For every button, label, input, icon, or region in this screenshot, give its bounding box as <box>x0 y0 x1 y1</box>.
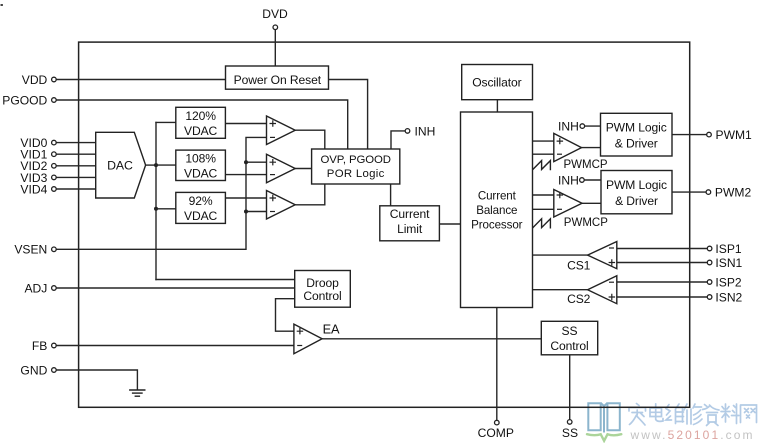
pin VID0 <box>20 136 56 150</box>
svg-text:COMP: COMP <box>478 426 514 440</box>
wire EA output to SS Control <box>322 338 541 340</box>
wire 92% VDAC to comp3 plus <box>225 197 266 199</box>
svg-text:Droop: Droop <box>306 276 339 290</box>
pin ISN2 <box>707 290 742 304</box>
wire ISN2 <box>617 296 708 298</box>
wire PWM2 output <box>672 191 706 193</box>
block SS Control <box>541 321 597 355</box>
wire ISP1 <box>617 248 708 250</box>
watermark book icon <box>588 403 620 433</box>
svg-text:OVP, PGOOD: OVP, PGOOD <box>321 154 391 166</box>
comparator 120% OVP <box>267 116 296 145</box>
wire ISP2 <box>617 281 708 283</box>
error amplifier EA <box>294 322 340 354</box>
sawtooth PWMCP 1 <box>533 161 551 170</box>
pin FB <box>32 339 56 353</box>
svg-text:PWM Logic: PWM Logic <box>606 178 667 192</box>
svg-text:CS2: CS2 <box>567 292 591 306</box>
block Power On Reset <box>226 66 329 89</box>
node INH2 <box>558 173 584 187</box>
sawtooth PWMCP 2 <box>533 219 551 228</box>
svg-text:VID4: VID4 <box>20 182 47 196</box>
wire comp1 out to OVP <box>295 130 325 149</box>
junction bus 92% <box>154 207 158 211</box>
stray dot top-left <box>1 4 3 6</box>
svg-text:ISN1: ISN1 <box>715 256 742 270</box>
svg-text:DAC: DAC <box>107 158 133 172</box>
svg-text:& Driver: & Driver <box>615 194 658 208</box>
wire bus to 120% VDAC <box>156 121 176 123</box>
WATERMARK <box>587 403 757 442</box>
ground symbol <box>130 390 145 396</box>
pin PWM2 <box>706 186 751 200</box>
wire VID1 <box>56 153 95 155</box>
DAC converter <box>96 132 146 198</box>
current sense amplifier CS1 <box>567 242 617 273</box>
wire VDD to Power On Reset <box>56 79 225 81</box>
svg-text:Oscillator: Oscillator <box>472 75 521 89</box>
svg-text:Current: Current <box>478 190 517 203</box>
block Current Balance Processor <box>461 112 533 308</box>
svg-text:VDAC: VDAC <box>184 167 218 181</box>
block 92% VDAC <box>176 192 226 223</box>
wire CS2 out to CBP <box>533 289 588 291</box>
svg-text:DVD: DVD <box>262 7 288 21</box>
wire comp3 out to OVP <box>295 184 325 205</box>
pin VID3 <box>20 171 56 185</box>
svg-text:INH: INH <box>558 120 579 134</box>
wire comp5 out to PWM logic 2 <box>582 202 601 204</box>
watermark chinese glyphs <box>629 404 757 426</box>
wire DVD stub <box>274 30 276 66</box>
wire VID3 <box>56 176 95 178</box>
wire bus to 92% VDAC <box>156 208 176 210</box>
pin ISN1 <box>707 256 742 270</box>
wire PWM1 output <box>672 134 707 136</box>
junction VSEN comp2 <box>244 160 248 164</box>
pin VID1 <box>20 148 56 162</box>
PWM comparator 2 <box>554 190 582 218</box>
svg-text:108%: 108% <box>185 152 216 166</box>
wire Power On Reset out to OVP <box>329 80 368 150</box>
pin ADJ <box>24 281 56 295</box>
svg-text:Control: Control <box>550 339 588 353</box>
wire bus to 108% VDAC <box>156 164 176 166</box>
svg-text:GND: GND <box>20 363 47 377</box>
svg-text:PWM1: PWM1 <box>716 128 753 142</box>
wire comp2 out to OVP <box>295 168 311 170</box>
current sense amplifier CS2 <box>567 276 617 306</box>
svg-text:PWM2: PWM2 <box>715 186 752 200</box>
svg-text:PWMCP: PWMCP <box>564 159 608 171</box>
svg-text:INH: INH <box>415 124 436 138</box>
wire CS1 out to CBP <box>533 254 588 256</box>
block 108% VDAC <box>176 150 226 180</box>
block Current Limit <box>380 206 440 241</box>
svg-text:PWM Logic: PWM Logic <box>606 121 667 135</box>
wire ISN1 <box>617 262 708 264</box>
wire INH1 to PWM logic 1 <box>585 125 601 127</box>
comparator 108% PGOOD <box>267 154 296 183</box>
svg-text:VDAC: VDAC <box>184 209 218 223</box>
svg-text:SS: SS <box>562 324 578 338</box>
pin PGOOD <box>2 93 56 107</box>
block PWM Logic Driver 1 <box>601 113 673 156</box>
wire DAC output <box>146 164 156 166</box>
pin VSEN <box>14 243 56 257</box>
svg-text:Processor: Processor <box>471 218 523 231</box>
svg-text:120%: 120% <box>185 109 216 123</box>
svg-text:Power On Reset: Power On Reset <box>234 73 322 87</box>
pin VID4 <box>20 182 56 196</box>
pin SS <box>562 420 578 441</box>
svg-text:PGOOD: PGOOD <box>2 93 47 107</box>
wire 108% VDAC to comp2 minus <box>225 174 266 176</box>
IC boundary <box>79 42 690 407</box>
svg-text:& Driver: & Driver <box>615 137 658 151</box>
svg-text:CS1: CS1 <box>567 258 591 272</box>
svg-text:ISP1: ISP1 <box>715 242 741 256</box>
wire VSEN <box>56 137 266 249</box>
wire OVP to Current Limit <box>390 184 392 206</box>
block Oscillator <box>462 65 533 100</box>
svg-text:92%: 92% <box>189 194 213 208</box>
junction DAC bus <box>154 163 158 167</box>
watermark book green band <box>587 434 621 441</box>
svg-text:SS: SS <box>562 426 578 440</box>
wire Droop Control to EA plus <box>276 299 295 332</box>
pin VDD <box>22 73 56 87</box>
wire PGOOD <box>56 100 348 149</box>
svg-text:VSEN: VSEN <box>14 243 47 257</box>
node INH1 <box>558 120 585 134</box>
svg-text:Control: Control <box>303 289 341 303</box>
wire FB to EA minus <box>56 345 294 347</box>
node INH <box>405 124 435 138</box>
pin PWM1 <box>707 128 752 142</box>
comparator 92% PGOOD <box>267 191 296 220</box>
wire CBP to comp4 plus <box>533 140 554 142</box>
wire GND <box>56 370 137 390</box>
wire VSEN branch comp3 minus <box>246 211 267 213</box>
svg-text:ISP2: ISP2 <box>715 275 741 289</box>
svg-text:FB: FB <box>32 339 47 353</box>
pin VID2 <box>20 159 56 173</box>
svg-text:EA: EA <box>323 322 340 337</box>
wire SS Control to SS pin <box>569 355 571 420</box>
PWM comparator 1 <box>554 133 582 161</box>
svg-text:VDAC: VDAC <box>184 124 218 138</box>
svg-text:VDD: VDD <box>22 73 48 87</box>
wire CBP to COMP pin <box>496 308 498 421</box>
wire CBP to comp5 plus <box>533 194 554 196</box>
svg-text:Balance: Balance <box>476 204 517 217</box>
block PWM Logic Driver 2 <box>601 171 672 214</box>
junction VSEN comp3 <box>244 210 248 214</box>
svg-text:Limit: Limit <box>397 222 423 236</box>
block 120% VDAC <box>176 107 226 138</box>
pin GND <box>20 363 56 377</box>
block Droop Control <box>295 271 351 308</box>
pin DVD <box>262 7 288 30</box>
wire VID2 <box>56 165 95 167</box>
pin ISP2 <box>707 275 742 289</box>
wire bus to Droop Control <box>156 279 295 281</box>
svg-text:www.520101.com: www.520101.com <box>630 428 755 442</box>
wire VID4 <box>56 188 95 190</box>
wire VID0 <box>56 142 95 144</box>
pin ISP1 <box>707 242 742 256</box>
wire Current Limit to Current Balance Processor <box>439 223 460 225</box>
svg-text:PWMCP: PWMCP <box>564 217 608 229</box>
wire DAC bus vertical <box>155 122 157 279</box>
wire comp4 out to PWM logic 1 <box>582 147 601 149</box>
svg-text:ADJ: ADJ <box>24 281 47 295</box>
wire CBP to comp4 minus <box>533 153 554 155</box>
wire Oscillator to Current Balance Processor <box>496 100 498 112</box>
pin COMP <box>478 420 514 440</box>
svg-text:INH: INH <box>558 173 579 187</box>
svg-text:POR Logic: POR Logic <box>327 168 385 180</box>
wire INH2 to PWM logic 2 <box>584 179 601 181</box>
wire INH stub <box>391 131 405 149</box>
wire CBP to comp5 minus <box>533 208 554 210</box>
wire VSEN branch comp2 plus <box>246 161 267 163</box>
svg-text:ISN2: ISN2 <box>715 290 742 304</box>
block OVP PGOOD POR Logic <box>312 149 400 184</box>
wire 120% VDAC to comp1 plus <box>225 123 266 125</box>
wire ADJ to Droop Control <box>56 287 295 289</box>
svg-text:Current: Current <box>390 207 430 221</box>
